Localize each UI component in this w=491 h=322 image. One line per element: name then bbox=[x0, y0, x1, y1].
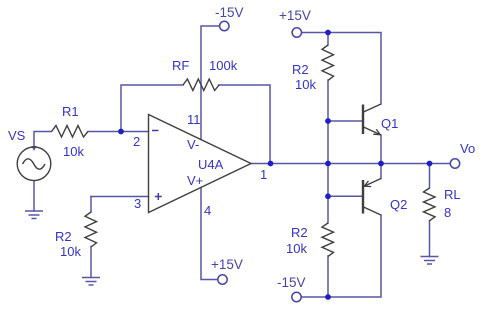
svg-text:10k: 10k bbox=[286, 241, 307, 256]
svg-text:VS: VS bbox=[8, 128, 26, 143]
svg-text:RL: RL bbox=[444, 187, 461, 202]
svg-text:10k: 10k bbox=[63, 144, 84, 159]
svg-text:RF: RF bbox=[172, 58, 189, 73]
svg-text:U4A: U4A bbox=[198, 157, 224, 172]
svg-text:-15V: -15V bbox=[277, 275, 306, 290]
svg-text:Vo: Vo bbox=[460, 141, 475, 156]
svg-text:R2: R2 bbox=[292, 62, 309, 77]
svg-text:Q2: Q2 bbox=[390, 197, 407, 212]
svg-text:10k: 10k bbox=[295, 77, 316, 92]
svg-text:3: 3 bbox=[134, 196, 141, 211]
svg-text:R1: R1 bbox=[62, 104, 79, 119]
svg-text:-15V: -15V bbox=[215, 5, 244, 20]
svg-text:2: 2 bbox=[133, 134, 140, 149]
svg-text:Q1: Q1 bbox=[381, 116, 398, 131]
svg-text:R2: R2 bbox=[291, 225, 308, 240]
svg-text:+15V: +15V bbox=[211, 257, 243, 272]
svg-text:8: 8 bbox=[444, 205, 451, 220]
svg-text:1: 1 bbox=[260, 167, 267, 182]
svg-text:V-: V- bbox=[187, 137, 199, 152]
svg-text:100k: 100k bbox=[209, 58, 238, 73]
svg-text:4: 4 bbox=[204, 203, 211, 218]
svg-text:+15V: +15V bbox=[279, 8, 311, 23]
svg-text:R2: R2 bbox=[55, 229, 72, 244]
svg-text:V+: V+ bbox=[187, 173, 203, 188]
svg-text:10k: 10k bbox=[60, 244, 81, 259]
svg-text:11: 11 bbox=[187, 112, 201, 127]
